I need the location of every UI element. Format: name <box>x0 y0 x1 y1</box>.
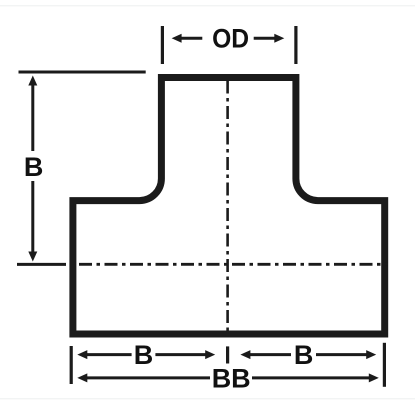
dimension B bottom-left: left arrow <box>87 353 132 356</box>
dimension OD: right tick <box>294 26 297 64</box>
svg-text:B: B <box>294 340 314 370</box>
faint page rule bottom <box>0 398 415 399</box>
bottom center tick <box>226 346 229 363</box>
dimension BB: right arrow <box>252 376 370 379</box>
dimension BB: left arrow <box>87 376 211 379</box>
dimension OD: left arrow <box>181 37 202 40</box>
svg-text:B: B <box>134 340 154 370</box>
dimension B bottom-right: right arrow <box>316 353 367 356</box>
svg-text:B: B <box>24 152 44 182</box>
dimension B bottom-left: right arrow <box>155 353 206 356</box>
extension line top-left <box>19 71 146 74</box>
faint page rule top <box>0 5 415 6</box>
svg-text:BB: BB <box>212 363 251 393</box>
tee fitting outline <box>73 78 385 335</box>
svg-text:OD: OD <box>212 24 249 54</box>
extension line bottom-left <box>17 263 66 266</box>
dimension B left: up arrowhead <box>28 76 37 86</box>
dimension B left: down arrowhead <box>28 252 37 262</box>
dimension OD: right arrow <box>254 37 275 40</box>
horizontal centerline <box>79 263 388 266</box>
vertical centerline <box>226 81 229 332</box>
dimension B bottom-right: left arrow <box>250 353 291 356</box>
bottom left tick <box>70 346 73 384</box>
bottom right tick <box>383 343 386 387</box>
dimension B left: vertical line <box>31 84 34 151</box>
dimension OD: left tick <box>161 26 164 64</box>
